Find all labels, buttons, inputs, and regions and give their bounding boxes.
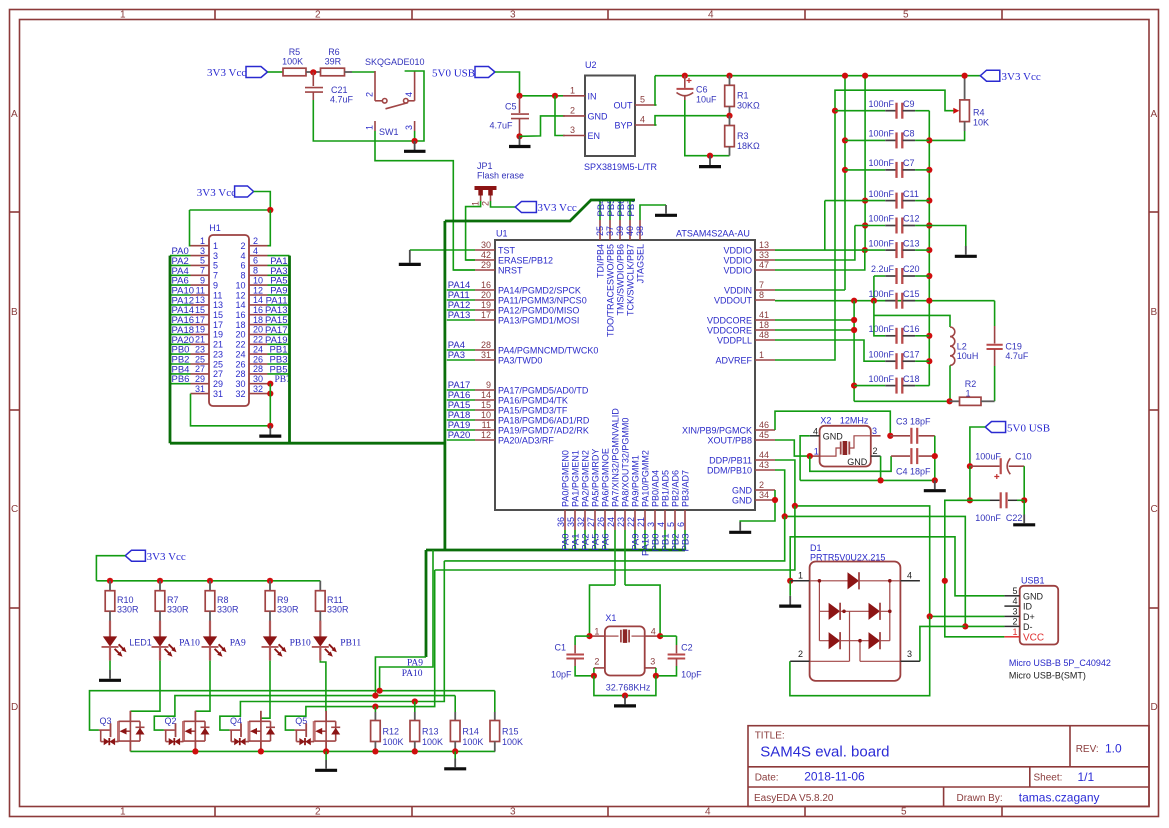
junction PA9/L2	[372, 693, 378, 699]
svg-text:D: D	[1151, 702, 1158, 713]
junction H1 pin30	[267, 381, 273, 387]
svg-text:4: 4	[705, 807, 711, 818]
wire XOUT to X2 pin1	[775, 440, 810, 456]
header H1	[209, 223, 249, 406]
junction U1 GND	[772, 497, 778, 503]
svg-text:Drawn By:: Drawn By:	[957, 793, 1003, 804]
svg-text:32: 32	[576, 517, 586, 527]
wire LED PA10 to Q3 drain	[130, 661, 160, 712]
svg-text:VDDIO: VDDIO	[723, 245, 752, 255]
wire D+ to D1 pin2	[790, 616, 930, 695]
svg-text:C8: C8	[903, 129, 915, 139]
svg-text:10K: 10K	[973, 117, 989, 127]
junction R3 ground	[707, 153, 713, 159]
title block	[748, 726, 1149, 807]
svg-text:17: 17	[481, 310, 491, 320]
svg-text:VDDIO: VDDIO	[723, 265, 752, 275]
svg-text:PA20/AD3/RF: PA20/AD3/RF	[498, 435, 554, 445]
svg-text:PA10: PA10	[402, 669, 423, 679]
svg-text:GND: GND	[732, 495, 753, 505]
bus H1 right	[288, 256, 291, 444]
wire SW1 pin4 loop	[405, 71, 424, 141]
svg-text:20: 20	[253, 325, 263, 335]
wires PB4-PB7 to bus	[600, 200, 630, 220]
wire TST	[410, 249, 475, 251]
svg-text:NRST: NRST	[498, 265, 523, 275]
svg-text:C5: C5	[505, 102, 517, 112]
resistor R5	[282, 47, 313, 76]
svg-text:3: 3	[570, 125, 575, 135]
U1 right pin numbers	[759, 240, 769, 500]
net labels PB4-PB7	[596, 199, 637, 217]
svg-text:29: 29	[481, 260, 491, 270]
svg-text:25: 25	[213, 359, 223, 369]
ground (R14)	[444, 751, 466, 768]
LED PB10	[262, 621, 311, 661]
svg-text:7: 7	[200, 266, 205, 276]
svg-text:X1: X1	[605, 613, 616, 623]
svg-text:ID: ID	[1023, 602, 1033, 612]
ground (C22)	[1013, 515, 1035, 525]
svg-text:39R: 39R	[325, 57, 342, 67]
capacitor C22 100nF	[970, 492, 1024, 523]
svg-text:10: 10	[481, 410, 491, 420]
svg-text:17: 17	[195, 315, 205, 325]
svg-text:VDDIO: VDDIO	[723, 255, 752, 265]
svg-text:PB5: PB5	[270, 364, 288, 375]
svg-text:SKQGADE010: SKQGADE010	[365, 57, 425, 67]
svg-text:8: 8	[253, 266, 258, 276]
wire PB10 takeoff	[444, 516, 784, 561]
svg-text:VDDCORE: VDDCORE	[707, 325, 752, 335]
svg-text:32: 32	[235, 389, 245, 399]
junction C4 right	[932, 453, 938, 459]
svg-text:37: 37	[605, 226, 615, 236]
svg-text:19: 19	[195, 325, 205, 335]
svg-text:3V3 Vcc: 3V3 Vcc	[207, 67, 246, 79]
LED PA9	[202, 621, 246, 661]
net flag 3V3 Vcc (LED rail)	[125, 550, 186, 563]
svg-text:30: 30	[253, 374, 263, 384]
resistor R14 100K	[450, 696, 483, 752]
svg-text:9: 9	[213, 280, 218, 290]
svg-text:R8: R8	[217, 595, 229, 605]
svg-text:C15: C15	[903, 289, 920, 299]
wire flag to LED rail	[96, 556, 125, 581]
svg-text:GND: GND	[847, 457, 868, 467]
wire U2 GND to C5 bottom	[520, 116, 565, 136]
svg-text:330R: 330R	[217, 605, 239, 615]
bus drop PA9	[425, 550, 428, 657]
svg-text:JP1: JP1	[477, 161, 493, 171]
svg-text:43: 43	[759, 460, 769, 470]
svg-text:C11: C11	[903, 189, 919, 199]
svg-text:4: 4	[708, 10, 714, 21]
wire X2 pin2 to gnd rail	[880, 456, 882, 480]
svg-text:C22: C22	[1006, 513, 1023, 523]
junction D1 pin1	[787, 578, 793, 584]
svg-text:15: 15	[195, 305, 205, 315]
U1 right pin names	[682, 245, 753, 505]
junction C22 left	[967, 497, 973, 503]
svg-text:C18: C18	[903, 374, 920, 384]
svg-text:PA2/PGMEN2: PA2/PGMEN2	[580, 450, 590, 507]
svg-text:1: 1	[120, 10, 126, 21]
wire H1 pin31 to ground	[191, 394, 271, 426]
wire LED 3V3 rail	[96, 580, 320, 582]
svg-text:2: 2	[1012, 616, 1017, 626]
wire X1 pin1 feed	[590, 585, 616, 636]
capacitor C4 18pF	[810, 448, 935, 477]
svg-text:100uF: 100uF	[975, 452, 1001, 462]
svg-text:21: 21	[195, 335, 205, 345]
svg-text:47: 47	[759, 260, 769, 270]
H1 left net wires and labels	[170, 246, 194, 385]
wire VDDCORE rail x854	[853, 301, 855, 402]
svg-text:39: 39	[615, 226, 625, 236]
wire JP1 pin2 to 3V3 flag	[491, 201, 516, 207]
svg-text:4.7uF: 4.7uF	[1005, 351, 1029, 361]
svg-text:21: 21	[213, 340, 223, 350]
svg-text:BYP: BYP	[614, 121, 632, 131]
svg-text:30: 30	[481, 240, 491, 250]
svg-text:15: 15	[481, 400, 491, 410]
svg-text:1: 1	[570, 86, 575, 96]
svg-text:TMS/SWDIO/PB6: TMS/SWDIO/PB6	[615, 244, 625, 316]
bus bottom horizontal	[170, 442, 445, 445]
svg-text:4: 4	[813, 426, 818, 436]
junction X2 gnd rail right	[932, 477, 938, 483]
capacitor C2 10pF	[656, 636, 702, 679]
svg-text:23: 23	[213, 349, 223, 359]
wire X1 pin2 down	[593, 668, 595, 676]
svg-text:PA12/PGMD0/MISO: PA12/PGMD0/MISO	[498, 305, 579, 315]
svg-text:PA8/XOUT32/PGMM0: PA8/XOUT32/PGMM0	[620, 418, 630, 507]
ground (TST)	[399, 250, 421, 264]
svg-text:26: 26	[596, 517, 606, 527]
svg-text:2: 2	[315, 10, 321, 21]
svg-text:30: 30	[235, 379, 245, 389]
wire U2 OUT up to 3V3 rail	[655, 76, 657, 105]
svg-text:PB11: PB11	[340, 639, 361, 649]
wire L3 PB10 line	[220, 561, 444, 730]
svg-text:5V0 USB: 5V0 USB	[1007, 422, 1050, 434]
junction R5/R6/C21	[310, 69, 316, 75]
wire L2 PA9 line	[154, 696, 455, 731]
svg-text:GND: GND	[1023, 591, 1044, 601]
bus U1 top	[445, 200, 635, 221]
svg-text:Sheet:: Sheet:	[1034, 773, 1063, 784]
resistor R7 330R	[155, 581, 189, 621]
svg-text:DDM/PB10: DDM/PB10	[707, 465, 752, 475]
U1 top pin names	[595, 244, 645, 337]
U1 right pin stubs	[755, 250, 775, 500]
svg-text:U2: U2	[585, 60, 597, 70]
net flag 3V3 Vcc (top left)	[207, 67, 268, 80]
svg-text:PA17/PGMD5/AD0/TD: PA17/PGMD5/AD0/TD	[498, 385, 589, 395]
svg-text:PA20: PA20	[448, 430, 471, 441]
svg-text:18: 18	[235, 320, 245, 330]
wire 5V down to C22 left	[969, 466, 971, 500]
svg-text:1: 1	[814, 446, 819, 456]
wire R4 bottom to C8 right	[929, 131, 964, 140]
svg-text:34: 34	[759, 490, 769, 500]
svg-text:PA10/PGMM2: PA10/PGMM2	[640, 450, 650, 507]
wire X1 pin4 feed	[625, 585, 660, 636]
junction D1 pin4	[942, 578, 948, 584]
svg-text:10pF: 10pF	[551, 670, 572, 680]
U1 left pin stubs	[475, 250, 495, 440]
svg-text:VCC: VCC	[1023, 632, 1044, 643]
junction EN tie	[552, 93, 558, 99]
junction rail R7	[157, 578, 163, 584]
svg-text:REV:: REV:	[1076, 744, 1099, 755]
wire C12 to ground	[929, 226, 966, 247]
svg-text:PA13: PA13	[448, 310, 471, 321]
svg-text:12: 12	[235, 290, 245, 300]
svg-text:GND: GND	[588, 111, 609, 121]
svg-text:OUT: OUT	[614, 101, 634, 111]
H1 right net wires and labels	[265, 256, 291, 386]
wire NRST tail	[453, 269, 475, 271]
svg-text:11: 11	[196, 285, 205, 295]
junction Q2 source	[192, 748, 198, 754]
svg-text:27: 27	[195, 364, 205, 374]
svg-text:6: 6	[253, 256, 258, 266]
ground (R3/C6)	[699, 156, 721, 167]
svg-text:TITLE:: TITLE:	[755, 731, 785, 742]
junction C22 right	[1021, 497, 1027, 503]
junction rail R9	[267, 578, 273, 584]
svg-text:100K: 100K	[462, 737, 483, 747]
svg-text:C10: C10	[1015, 452, 1032, 462]
svg-text:21: 21	[636, 517, 646, 527]
svg-text:7: 7	[213, 271, 218, 281]
svg-text:VDDIN: VDDIN	[724, 285, 752, 295]
svg-text:6: 6	[240, 261, 245, 271]
svg-text:R12: R12	[383, 727, 400, 737]
svg-text:1: 1	[213, 241, 218, 251]
capacitor C12 100nF	[855, 214, 933, 234]
wire 5V to D1 pin4 and USB VCC	[945, 500, 1005, 637]
svg-text:1: 1	[759, 350, 764, 360]
diode array D1 PRTR5V0U2X,215	[790, 543, 920, 681]
svg-text:13: 13	[195, 295, 205, 305]
wire LED1 to ground	[109, 661, 111, 670]
wire D1 pin1 to ground	[789, 581, 791, 596]
svg-text:PB2/AD6: PB2/AD6	[670, 470, 680, 507]
svg-text:12: 12	[481, 430, 491, 440]
capacitor C17 100nF	[868, 349, 932, 369]
svg-text:12: 12	[253, 285, 263, 295]
svg-text:TDO/TRACESWO/PB5: TDO/TRACESWO/PB5	[605, 244, 615, 337]
transistor Q2	[164, 711, 210, 752]
svg-text:R4: R4	[973, 108, 985, 118]
wire H1 3V3 rail	[190, 209, 271, 211]
svg-text:4: 4	[1012, 596, 1017, 606]
svg-text:100K: 100K	[383, 737, 404, 747]
svg-text:13: 13	[759, 240, 769, 250]
wire PA9 from bus	[375, 657, 426, 696]
svg-text:16: 16	[253, 305, 263, 315]
svg-text:VDDCORE: VDDCORE	[707, 315, 752, 325]
svg-text:100nF: 100nF	[868, 99, 894, 109]
ground (LED1)	[99, 670, 121, 680]
svg-text:R6: R6	[328, 47, 340, 57]
crystal X2 12MHz	[810, 416, 881, 467]
svg-text:Micro USB-B(SMT): Micro USB-B(SMT)	[1009, 671, 1086, 681]
ground (X1)	[614, 696, 636, 706]
svg-text:11: 11	[213, 290, 222, 300]
wire X1 pin3 down	[655, 668, 657, 676]
svg-text:15: 15	[213, 310, 223, 320]
ground (Q5)	[315, 751, 337, 770]
svg-text:38: 38	[635, 226, 645, 236]
svg-text:5V0 USB: 5V0 USB	[432, 68, 475, 80]
svg-text:5: 5	[1012, 586, 1017, 596]
svg-text:26: 26	[235, 359, 245, 369]
svg-text:ATSAM4S2AA-AU: ATSAM4S2AA-AU	[676, 229, 750, 239]
svg-text:36: 36	[556, 517, 566, 527]
resistor R3	[725, 116, 760, 156]
svg-text:C4 18pF: C4 18pF	[896, 467, 931, 477]
junction DDP branch	[792, 503, 798, 509]
U1 bottom pin numbers	[556, 517, 686, 527]
LED PA10	[152, 621, 201, 661]
junction X1 right bottom	[653, 673, 659, 679]
wire 3V3 to R5	[268, 71, 284, 73]
svg-text:5: 5	[903, 10, 909, 21]
svg-text:100K: 100K	[502, 737, 523, 747]
svg-text:2: 2	[570, 106, 575, 116]
wire riser x865 (3V3 to C11/C12/C13)	[864, 76, 866, 250]
svg-text:B: B	[1151, 307, 1158, 318]
svg-text:PA4/PGMNCMD/TWCK0: PA4/PGMNCMD/TWCK0	[498, 345, 598, 355]
svg-text:5: 5	[213, 261, 218, 271]
junction switch ground	[412, 138, 418, 144]
junction X1 pin4	[657, 633, 663, 639]
svg-text:9: 9	[200, 275, 205, 285]
svg-text:C: C	[1151, 504, 1158, 515]
wire VDDOUT pin8 long rail	[775, 300, 995, 302]
wire riser x845 (3V3 to C8/C7/VDDIN)	[844, 76, 846, 290]
capacitor C6 (polarized)	[677, 73, 718, 105]
svg-text:C13: C13	[903, 238, 920, 248]
U1 left pin names	[498, 245, 598, 445]
svg-text:C6: C6	[696, 85, 708, 95]
svg-text:PA6: PA6	[601, 534, 612, 551]
svg-text:4: 4	[404, 92, 414, 97]
resistor R9 330R	[265, 581, 299, 621]
svg-text:3V3 Vcc: 3V3 Vcc	[1002, 71, 1041, 83]
svg-text:DDP/PB11: DDP/PB11	[709, 455, 752, 465]
wire right rail x929	[928, 111, 930, 386]
svg-text:19: 19	[481, 300, 491, 310]
svg-text:31: 31	[195, 384, 205, 394]
svg-text:D: D	[11, 702, 18, 713]
potentiometer R4	[960, 73, 989, 131]
svg-text:VDDPLL: VDDPLL	[717, 335, 752, 345]
wires U1 bottom pins to bus	[565, 530, 685, 550]
svg-text:4: 4	[640, 115, 645, 125]
resistor R2 1	[950, 379, 995, 405]
junction L2 bottom	[947, 398, 953, 404]
wire C3 right down	[934, 436, 936, 481]
svg-text:PA7/XIN32/PGMNVALID: PA7/XIN32/PGMNVALID	[610, 408, 620, 507]
svg-text:3V3 Vcc: 3V3 Vcc	[197, 187, 236, 199]
junction X2 pin3	[887, 433, 893, 439]
svg-text:5: 5	[640, 95, 645, 105]
svg-text:28: 28	[481, 340, 491, 350]
svg-text:C7: C7	[903, 158, 915, 168]
svg-text:PB3: PB3	[681, 534, 692, 552]
wire JTAGSEL to ground	[640, 205, 666, 220]
junction X1 left bottom	[591, 673, 597, 679]
wire L4 PB11 line	[285, 570, 434, 730]
wire GND link to USB	[790, 537, 1004, 596]
svg-text:PA15/PGMD3/TF: PA15/PGMD3/TF	[498, 405, 568, 415]
svg-text:100K: 100K	[282, 57, 303, 67]
svg-text:2: 2	[315, 807, 321, 818]
junction R13 bottom	[412, 748, 418, 754]
svg-text:32.768KHz: 32.768KHz	[606, 683, 651, 693]
svg-text:31: 31	[481, 350, 491, 360]
svg-text:PA9/PGMM1: PA9/PGMM1	[630, 455, 640, 507]
resistor R6	[313, 47, 352, 76]
svg-text:100nF: 100nF	[868, 129, 894, 139]
wire C20 left down to VDDOUT node	[873, 276, 875, 301]
svg-text:17: 17	[213, 320, 223, 330]
capacitor C19 4.7uF	[987, 301, 1029, 402]
wire X2 ground rail	[800, 479, 935, 481]
svg-text:22: 22	[235, 340, 245, 350]
ground (D1)	[779, 596, 801, 606]
svg-text:C: C	[11, 504, 18, 515]
svg-text:25: 25	[195, 354, 205, 364]
wire 5V0 flag to U2 IN	[495, 72, 520, 96]
svg-text:31: 31	[213, 389, 223, 399]
ground (H1)	[259, 426, 281, 436]
LED PB11	[312, 621, 362, 661]
junction R12 bottom	[372, 748, 378, 754]
svg-text:C21: C21	[331, 85, 348, 95]
wire PA10 from bus	[380, 550, 433, 691]
svg-text:C20: C20	[903, 264, 920, 274]
resistor R12 100K	[371, 707, 404, 752]
svg-text:PA13/PGMD1/MOSI: PA13/PGMD1/MOSI	[498, 315, 579, 325]
capacitor C18 100nF	[851, 374, 929, 394]
svg-text:9: 9	[486, 380, 491, 390]
svg-text:GND: GND	[823, 432, 844, 442]
svg-text:EasyEDA V5.8.20: EasyEDA V5.8.20	[754, 793, 834, 804]
svg-text:330R: 330R	[117, 605, 139, 615]
capacitor C10 100uF (polarized)	[970, 452, 1032, 480]
svg-text:C12: C12	[903, 214, 920, 224]
svg-text:PA9: PA9	[230, 639, 246, 649]
wires U1 pins 24/23 to X1	[615, 530, 625, 585]
net flag 5V0 USB (right)	[985, 422, 1050, 435]
wire DDP to D+	[775, 460, 1004, 616]
svg-text:27: 27	[586, 517, 596, 527]
bus bottom horizontal	[426, 549, 685, 552]
svg-text:1.0: 1.0	[1105, 742, 1122, 756]
resistor R13 100K	[410, 702, 443, 752]
capacitor C16 100nF	[868, 301, 932, 344]
svg-text:42: 42	[481, 250, 491, 260]
svg-text:3: 3	[872, 426, 877, 436]
wire to pin1	[190, 210, 191, 246]
svg-text:C19: C19	[1005, 341, 1022, 351]
